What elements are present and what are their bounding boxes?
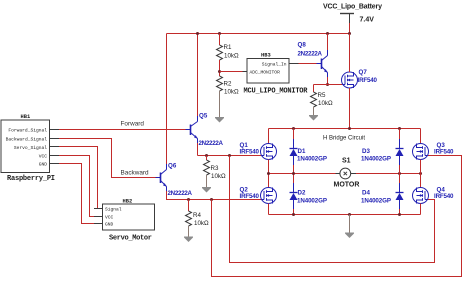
wire Signal_In to Q8 base <box>299 63 317 65</box>
svg-text:D2: D2 <box>298 190 306 197</box>
svg-text:1N4002GP: 1N4002GP <box>297 156 327 163</box>
diode D1 1N4002GP <box>290 129 328 174</box>
power VCC symbol 7.4V <box>340 14 374 24</box>
wire mid rail right <box>356 173 420 175</box>
svg-text:R1: R1 <box>224 44 232 51</box>
svg-text:S1: S1 <box>342 158 351 165</box>
svg-text:1N4002GP: 1N4002GP <box>361 156 391 163</box>
svg-text:Q6: Q6 <box>168 163 177 170</box>
wire Q8 emitter down <box>327 77 329 85</box>
diode D2 1N4002GP <box>290 174 328 215</box>
transistor Q6 2N2222A <box>156 163 193 197</box>
svg-text:Servo_Motor: Servo_Motor <box>109 235 152 243</box>
svg-text:10kΩ: 10kΩ <box>224 53 239 60</box>
node junction top rail D1 <box>292 127 295 130</box>
wire VCC stem to top rail <box>349 23 351 34</box>
diode D3 1N4002GP <box>361 129 404 174</box>
connector HB3 MCU_LIPO_MONITOR <box>243 53 309 96</box>
svg-text:1N4002GP: 1N4002GP <box>361 198 391 205</box>
svg-text:MCU_LIPO_MONITOR: MCU_LIPO_MONITOR <box>244 88 309 96</box>
svg-text:10kΩ: 10kΩ <box>211 173 226 180</box>
ground under R4 <box>184 237 193 242</box>
svg-text:Backward: Backward <box>121 170 150 177</box>
node junction bottom rail ground <box>348 213 351 216</box>
node Q8 emitter / R5 / Q7 gate junction <box>326 83 329 86</box>
node junction top rail D3 <box>398 127 401 130</box>
svg-text:MOTOR: MOTOR <box>334 182 360 189</box>
svg-text:VCC: VCC <box>105 215 114 221</box>
transistor Q5 2N2222A <box>186 113 224 147</box>
svg-text:Servo_Signal: Servo_Signal <box>14 145 47 151</box>
mosfet Q3 IRF540 (mirrored) <box>413 129 455 174</box>
node junction R4 <box>187 198 190 201</box>
wire Q6 emitter to backward gate rail <box>167 191 262 200</box>
wire Servo signal to HB2 <box>59 147 98 209</box>
node junction mid rail D3-D4 <box>398 172 401 175</box>
wire top VCC rail <box>167 33 350 35</box>
svg-text:D4: D4 <box>362 190 370 197</box>
svg-text:GND: GND <box>105 222 114 228</box>
wire backward branch to Q3 gate (bottom outer loop) <box>212 156 462 277</box>
wire Q5 emitter to gate rail <box>197 143 199 156</box>
svg-text:VCC_Lipo_Battery: VCC_Lipo_Battery <box>323 4 382 11</box>
svg-text:H Bridge Circuit: H Bridge Circuit <box>323 136 365 142</box>
svg-text:Forward_Signal: Forward_Signal <box>8 128 47 134</box>
connector HB1 Raspberry_PI <box>1 114 59 183</box>
svg-text:10kΩ: 10kΩ <box>224 89 239 96</box>
resistor R4 10k <box>186 200 209 238</box>
node junction branch to Q4 gate <box>228 154 231 157</box>
connector HB2 Servo_Motor <box>94 199 155 243</box>
svg-text:Q7: Q7 <box>359 69 368 76</box>
ground under R3 <box>202 188 211 193</box>
svg-text:10kΩ: 10kΩ <box>194 220 209 227</box>
resistor R3 10k <box>204 156 226 189</box>
svg-text:D3: D3 <box>362 148 370 155</box>
node junction top rail R1 <box>218 32 221 35</box>
svg-text:2N2222A: 2N2222A <box>199 140 224 147</box>
svg-text:R2: R2 <box>224 81 232 88</box>
node junction mid rail D1-D2 <box>292 172 295 175</box>
node junction top rail VCC <box>348 32 351 35</box>
svg-text:2N2222A: 2N2222A <box>168 190 193 197</box>
svg-text:Raspberry_PI: Raspberry_PI <box>7 175 55 183</box>
wire Q5 collector riser <box>197 34 199 117</box>
svg-text:VCC: VCC <box>39 154 48 160</box>
svg-text:IRF540: IRF540 <box>434 193 454 200</box>
mosfet Q1 IRF540 <box>240 129 277 174</box>
node junction top rail Q7 feed <box>348 127 351 130</box>
wire ADC_MONITOR to divider <box>220 71 243 73</box>
svg-text:R4: R4 <box>193 212 201 219</box>
transistor Q8 2N2222A <box>298 42 328 78</box>
node junction R3 <box>205 154 208 157</box>
wire Q7 drain <box>349 34 351 73</box>
wire forward branch to Q4 gate (bottom inner loop) <box>230 156 435 263</box>
wire GND to HB2 <box>59 164 94 224</box>
node R1-R2 divider junction <box>218 70 221 73</box>
node junction top rail Q8 collector <box>326 32 329 35</box>
svg-text:2N2222A: 2N2222A <box>298 51 323 58</box>
svg-text:Signal: Signal <box>105 207 122 213</box>
wire H bridge bottom rail <box>269 214 421 216</box>
mosfet Q2 IRF540 <box>240 174 277 215</box>
svg-text:IRF540: IRF540 <box>240 193 260 200</box>
wire forward gate rail <box>198 155 262 157</box>
motor S1 <box>334 158 360 189</box>
svg-text:IRF540: IRF540 <box>434 149 454 156</box>
svg-text:Forward: Forward <box>121 121 145 128</box>
node junction mid rail Q3-Q4 <box>419 172 422 175</box>
diode D4 1N4002GP <box>361 174 404 215</box>
svg-text:R3: R3 <box>211 165 219 172</box>
resistor R2 10k <box>217 76 239 118</box>
ground H bridge <box>345 215 354 239</box>
wire Q7 source to H bridge rail <box>349 88 351 129</box>
node junction mid rail Q1-Q2 <box>267 172 270 175</box>
mosfet Q4 IRF540 (mirrored) <box>413 174 455 215</box>
wire Q6 collector riser <box>166 34 168 165</box>
svg-text:ADC_MONITOR: ADC_MONITOR <box>250 70 281 76</box>
svg-text:10kΩ: 10kΩ <box>318 100 333 107</box>
resistor R5 10k <box>311 85 333 117</box>
wire Backward signal <box>59 139 156 178</box>
wire Forward signal <box>59 129 186 131</box>
wire junction to Q7 gate <box>328 84 343 86</box>
svg-text:IRF540: IRF540 <box>358 77 378 84</box>
svg-text:IRF540: IRF540 <box>240 149 260 156</box>
svg-text:1N4002GP: 1N4002GP <box>297 198 327 205</box>
svg-text:Q8: Q8 <box>298 42 307 49</box>
svg-text:D1: D1 <box>298 148 306 155</box>
wire Q8 collector to rail <box>327 34 329 51</box>
svg-text:7.4V: 7.4V <box>360 17 375 24</box>
svg-text:GND: GND <box>39 162 48 168</box>
wire VCC to HB2 <box>59 156 94 217</box>
wire mid rail left <box>269 173 336 175</box>
node junction top rail Q5 <box>196 32 199 35</box>
node junction branch to Q3 gate <box>210 198 213 201</box>
node junction bottom rail D2 <box>292 213 295 216</box>
wire junction to R5 <box>314 84 328 86</box>
wire H bridge top rail <box>269 128 421 130</box>
node junction bottom rail D4 <box>398 213 401 216</box>
svg-text:R5: R5 <box>318 92 326 99</box>
svg-text:HB3: HB3 <box>261 53 271 59</box>
resistor R1 10k <box>217 34 239 77</box>
ground under R2 <box>215 118 224 123</box>
svg-text:HB1: HB1 <box>21 114 31 120</box>
ground under R5 <box>309 116 318 121</box>
svg-text:Backward_Signal: Backward_Signal <box>6 137 48 143</box>
mosfet Q7 IRF540 <box>342 69 378 88</box>
svg-text:Signal_In: Signal_In <box>262 62 287 68</box>
svg-text:Q5: Q5 <box>199 113 208 120</box>
